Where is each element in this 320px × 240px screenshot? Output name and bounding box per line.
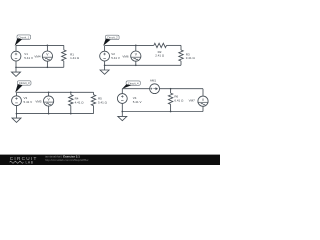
svg-text:AM1: AM1 bbox=[150, 78, 157, 82]
node flag Circuit_3 bbox=[17, 81, 31, 85]
wire R4 bottom stub bbox=[70, 106, 72, 114]
resistor R6 bbox=[168, 93, 172, 104]
svg-text:VM5: VM5 bbox=[35, 99, 42, 103]
junction VM5 bottom bbox=[48, 113, 50, 115]
svg-text:3.41 Ω: 3.41 Ω bbox=[186, 56, 196, 60]
svg-text:Circuit_3: Circuit_3 bbox=[19, 81, 30, 85]
junction R4 top bbox=[70, 91, 72, 93]
junction V2 bottom bbox=[104, 64, 106, 66]
svg-text:5.41 V: 5.41 V bbox=[133, 100, 142, 104]
wire V1 bottom stub bbox=[15, 61, 17, 67]
wire ground stub 2 bbox=[104, 65, 106, 70]
node flag Circuit_1 bbox=[17, 35, 31, 39]
voltage source V1 bbox=[11, 51, 21, 61]
ground bbox=[12, 118, 21, 122]
wire top rail 3 bbox=[17, 91, 94, 93]
wire V3 top stub bbox=[16, 92, 18, 96]
junction VM6 top bbox=[135, 45, 137, 47]
junction V4 bottom bbox=[121, 111, 123, 113]
junction R4 bottom bbox=[70, 113, 72, 115]
wire R5 bottom stub bbox=[93, 106, 95, 114]
svg-text:5.41 Ω: 5.41 Ω bbox=[98, 100, 108, 104]
wire VM4 top stub bbox=[46, 45, 48, 51]
svg-text:VM7: VM7 bbox=[189, 99, 196, 103]
svg-text:5.41 V: 5.41 V bbox=[24, 100, 33, 104]
wire top rail 2 left bbox=[105, 44, 154, 46]
wire R4 top stub bbox=[70, 92, 72, 94]
wire top rail 2 right bbox=[167, 44, 182, 46]
svg-text:VM6: VM6 bbox=[122, 55, 129, 59]
voltmeter VM4 bbox=[42, 51, 53, 61]
voltage source V2 bbox=[100, 51, 110, 61]
junction VM5 top bbox=[48, 91, 50, 93]
wire top rail 1 bbox=[16, 44, 64, 46]
wire R6 top stub bbox=[170, 89, 172, 93]
wire R1 bottom stub bbox=[63, 61, 65, 67]
svg-text:5.41 V: 5.41 V bbox=[111, 56, 120, 60]
svg-text:Circuit_4: Circuit_4 bbox=[128, 81, 139, 85]
wire bottom rail 4 bbox=[122, 111, 203, 113]
svg-text:2.41 Ω: 2.41 Ω bbox=[155, 54, 165, 58]
wire V4 top stub bbox=[121, 89, 123, 94]
resistor R2 bbox=[154, 43, 167, 47]
wire bottom rail 2 bbox=[105, 64, 181, 66]
wire R3 top stub bbox=[180, 45, 182, 50]
ground bbox=[12, 72, 21, 76]
svg-text:Circuit_2: Circuit_2 bbox=[107, 36, 118, 40]
wire ground stub 4 bbox=[121, 112, 123, 117]
wire VM5 bottom stub bbox=[48, 106, 50, 114]
node flag Circuit_2 bbox=[106, 35, 120, 39]
svg-text:http://circuitlab.com/c/25kq2s: http://circuitlab.com/c/25kq2s8f5w bbox=[45, 158, 89, 162]
svg-text:Circuit_1: Circuit_1 bbox=[18, 35, 29, 39]
wire VM7 top stub bbox=[202, 89, 204, 97]
wire R1 top stub bbox=[63, 45, 65, 50]
footer bar bbox=[0, 155, 220, 165]
wire V1 top stub bbox=[15, 45, 17, 51]
wire VM5 top stub bbox=[48, 92, 50, 96]
ground bbox=[118, 116, 127, 120]
wire VM7 bottom stub bbox=[202, 106, 204, 111]
wire VM6 top stub bbox=[135, 45, 137, 51]
wire top rail 4 left bbox=[122, 88, 149, 90]
junction VM4 top bbox=[47, 45, 49, 47]
voltmeter VM5 bbox=[43, 96, 54, 106]
wire V2 bottom stub bbox=[104, 61, 106, 65]
wire V2 top stub bbox=[104, 45, 106, 51]
resistor R4 bbox=[69, 95, 73, 106]
wire bottom rail 1 bbox=[16, 66, 64, 68]
wire VM4 bottom stub bbox=[46, 61, 48, 67]
wire ground stub 1 bbox=[15, 67, 17, 72]
svg-text:LAB: LAB bbox=[26, 161, 34, 165]
ammeter AM1 bbox=[150, 84, 160, 94]
svg-text:4.41 Ω: 4.41 Ω bbox=[75, 100, 85, 104]
svg-text:5.41 V: 5.41 V bbox=[24, 56, 33, 60]
junction V3 bottom bbox=[16, 113, 18, 115]
wire V3 bottom stub bbox=[16, 106, 18, 114]
voltmeter VM6 bbox=[131, 51, 142, 61]
wire V4 bottom stub bbox=[121, 103, 123, 111]
logo resistor zigzag bbox=[10, 161, 24, 163]
junction R6 bottom bbox=[170, 111, 172, 113]
wire ground stub 3 bbox=[16, 114, 18, 119]
wire VM6 bottom stub bbox=[135, 61, 137, 65]
wire top rail 4 right bbox=[160, 88, 204, 90]
ground bbox=[100, 70, 109, 74]
voltmeter VM7 bbox=[198, 96, 209, 106]
svg-text:6.41 Ω: 6.41 Ω bbox=[174, 98, 184, 102]
wire R6 bottom stub bbox=[170, 104, 172, 111]
svg-text:VM4: VM4 bbox=[34, 55, 41, 59]
resistor R5 bbox=[91, 95, 95, 106]
junction R6 top bbox=[170, 88, 172, 90]
voltage source V4 bbox=[117, 94, 127, 104]
wire R5 top stub bbox=[93, 92, 95, 94]
svg-text:1.41 Ω: 1.41 Ω bbox=[70, 56, 80, 60]
wire R3 bottom stub bbox=[180, 61, 182, 65]
junction VM4 bottom bbox=[47, 66, 49, 68]
voltage source V3 bbox=[12, 96, 22, 106]
resistor R1 bbox=[62, 50, 66, 61]
wire bottom rail 3 bbox=[17, 113, 94, 115]
node flag Circuit_4 bbox=[126, 81, 140, 85]
junction V1 bottom bbox=[15, 66, 17, 68]
junction VM6 bottom bbox=[135, 64, 137, 66]
resistor R3 bbox=[179, 50, 183, 61]
